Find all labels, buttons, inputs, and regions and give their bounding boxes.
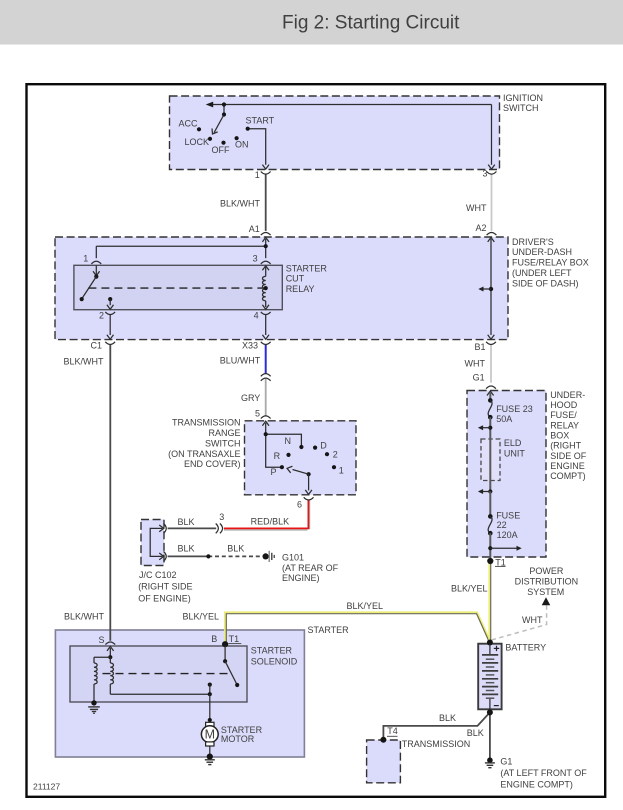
- svg-text:J/C C102: J/C C102: [139, 570, 177, 580]
- svg-text:1: 1: [83, 253, 88, 263]
- svg-text:END COVER): END COVER): [184, 459, 241, 469]
- svg-text:BLK/YEL: BLK/YEL: [346, 601, 383, 611]
- svg-text:BLK/WHT: BLK/WHT: [220, 199, 261, 209]
- svg-text:DISTRIBUTION: DISTRIBUTION: [515, 576, 579, 586]
- svg-text:STARTER: STARTER: [286, 263, 328, 273]
- svg-text:(UNDER LEFT: (UNDER LEFT: [512, 268, 572, 278]
- svg-text:RANGE: RANGE: [208, 428, 240, 438]
- svg-text:1: 1: [339, 466, 344, 476]
- svg-text:2: 2: [333, 450, 338, 460]
- svg-text:WHT: WHT: [466, 203, 487, 213]
- svg-text:R: R: [274, 451, 281, 461]
- svg-text:GRY: GRY: [241, 393, 260, 403]
- svg-text:211127: 211127: [33, 781, 60, 791]
- svg-text:UNIT: UNIT: [504, 448, 525, 458]
- svg-text:ENGINE: ENGINE: [550, 461, 585, 471]
- svg-text:N: N: [285, 436, 292, 446]
- svg-text:T1: T1: [229, 634, 240, 644]
- svg-text:RELAY: RELAY: [550, 420, 579, 430]
- svg-text:1: 1: [255, 170, 260, 180]
- svg-text:IGNITION: IGNITION: [503, 93, 543, 103]
- svg-text:BLU/WHT: BLU/WHT: [220, 355, 261, 365]
- svg-text:(ON TRANSAXLE: (ON TRANSAXLE: [168, 449, 240, 459]
- svg-text:MOTOR: MOTOR: [221, 734, 255, 744]
- svg-text:3: 3: [482, 169, 487, 179]
- svg-text:SYSTEM: SYSTEM: [527, 587, 564, 597]
- svg-text:WHT: WHT: [522, 615, 543, 625]
- svg-text:ENGINE): ENGINE): [282, 573, 320, 583]
- svg-text:120A: 120A: [497, 530, 518, 540]
- svg-text:SWITCH: SWITCH: [205, 438, 241, 448]
- svg-text:OFF: OFF: [212, 145, 230, 155]
- svg-text:LOCK: LOCK: [185, 137, 210, 147]
- svg-text:2: 2: [99, 311, 104, 321]
- svg-text:ENGINE COMPT): ENGINE COMPT): [500, 779, 573, 789]
- svg-text:HOOD: HOOD: [550, 400, 578, 410]
- svg-text:WHT: WHT: [465, 359, 486, 369]
- svg-text:TRANSMISSION: TRANSMISSION: [172, 418, 241, 428]
- svg-text:BATTERY: BATTERY: [505, 643, 546, 653]
- svg-text:ACC: ACC: [179, 118, 199, 128]
- svg-text:STARTER: STARTER: [251, 646, 293, 656]
- svg-text:BLK: BLK: [177, 517, 194, 527]
- svg-text:BLK/YEL: BLK/YEL: [182, 611, 219, 621]
- svg-text:22: 22: [497, 520, 507, 530]
- svg-text:P: P: [271, 467, 277, 477]
- svg-text:BLK/WHT: BLK/WHT: [63, 357, 104, 367]
- svg-text:BLK/WHT: BLK/WHT: [64, 611, 105, 621]
- svg-text:BOX: BOX: [550, 431, 569, 441]
- svg-text:BLK: BLK: [439, 713, 456, 723]
- svg-text:START: START: [246, 115, 275, 125]
- svg-text:(RIGHT: (RIGHT: [550, 441, 581, 451]
- svg-text:(RIGHT SIDE: (RIGHT SIDE: [138, 582, 192, 592]
- svg-text:COMPT): COMPT): [550, 471, 586, 481]
- svg-text:50A: 50A: [496, 414, 512, 424]
- svg-text:SWITCH: SWITCH: [503, 103, 539, 113]
- svg-text:ELD: ELD: [504, 438, 522, 448]
- svg-text:FUSE 23: FUSE 23: [496, 404, 533, 414]
- svg-text:RED/BLK: RED/BLK: [251, 516, 290, 526]
- svg-text:SOLENOID: SOLENOID: [251, 656, 298, 666]
- svg-text:M: M: [205, 728, 215, 742]
- svg-text:T4: T4: [387, 726, 398, 736]
- svg-text:POWER: POWER: [529, 566, 564, 576]
- svg-text:SIDE OF DASH): SIDE OF DASH): [512, 278, 579, 288]
- svg-text:A2: A2: [475, 223, 486, 233]
- svg-text:FUSE/: FUSE/: [550, 410, 577, 420]
- svg-text:BLK: BLK: [227, 544, 244, 554]
- svg-text:SIDE OF: SIDE OF: [550, 451, 587, 461]
- svg-text:Fig 2: Starting Circuit: Fig 2: Starting Circuit: [282, 13, 460, 34]
- svg-text:B1: B1: [474, 342, 485, 352]
- svg-text:OF ENGINE): OF ENGINE): [138, 593, 191, 603]
- svg-text:A1: A1: [249, 224, 260, 234]
- svg-text:UNDER-DASH: UNDER-DASH: [512, 247, 572, 257]
- svg-text:DRIVER'S: DRIVER'S: [512, 237, 554, 247]
- svg-text:5: 5: [255, 408, 260, 418]
- svg-text:BLK: BLK: [467, 728, 484, 738]
- svg-text:TRANSMISSION: TRANSMISSION: [402, 739, 471, 749]
- svg-text:UNDER-: UNDER-: [550, 390, 585, 400]
- svg-text:G1: G1: [500, 756, 512, 766]
- svg-text:BLK/YEL: BLK/YEL: [451, 583, 488, 593]
- svg-text:FUSE: FUSE: [496, 510, 520, 520]
- svg-text:BLK: BLK: [177, 544, 194, 554]
- svg-text:3: 3: [219, 512, 224, 522]
- svg-text:RELAY: RELAY: [286, 284, 315, 294]
- svg-text:ON: ON: [235, 140, 249, 150]
- svg-text:S: S: [98, 635, 104, 645]
- svg-text:6: 6: [297, 499, 302, 509]
- svg-text:G101: G101: [282, 552, 304, 562]
- svg-text:(AT LEFT FRONT OF: (AT LEFT FRONT OF: [500, 768, 587, 778]
- svg-text:4: 4: [254, 311, 259, 321]
- svg-text:D: D: [320, 441, 327, 451]
- svg-text:G1: G1: [473, 373, 485, 383]
- svg-text:FUSE/RELAY BOX: FUSE/RELAY BOX: [512, 258, 589, 268]
- svg-text:B: B: [211, 634, 217, 644]
- svg-text:CUT: CUT: [286, 274, 305, 284]
- svg-text:3: 3: [253, 253, 258, 263]
- svg-text:(AT REAR OF: (AT REAR OF: [282, 563, 339, 573]
- svg-text:STARTER: STARTER: [308, 625, 350, 635]
- svg-text:X33: X33: [242, 340, 258, 350]
- svg-text:C1: C1: [90, 341, 102, 351]
